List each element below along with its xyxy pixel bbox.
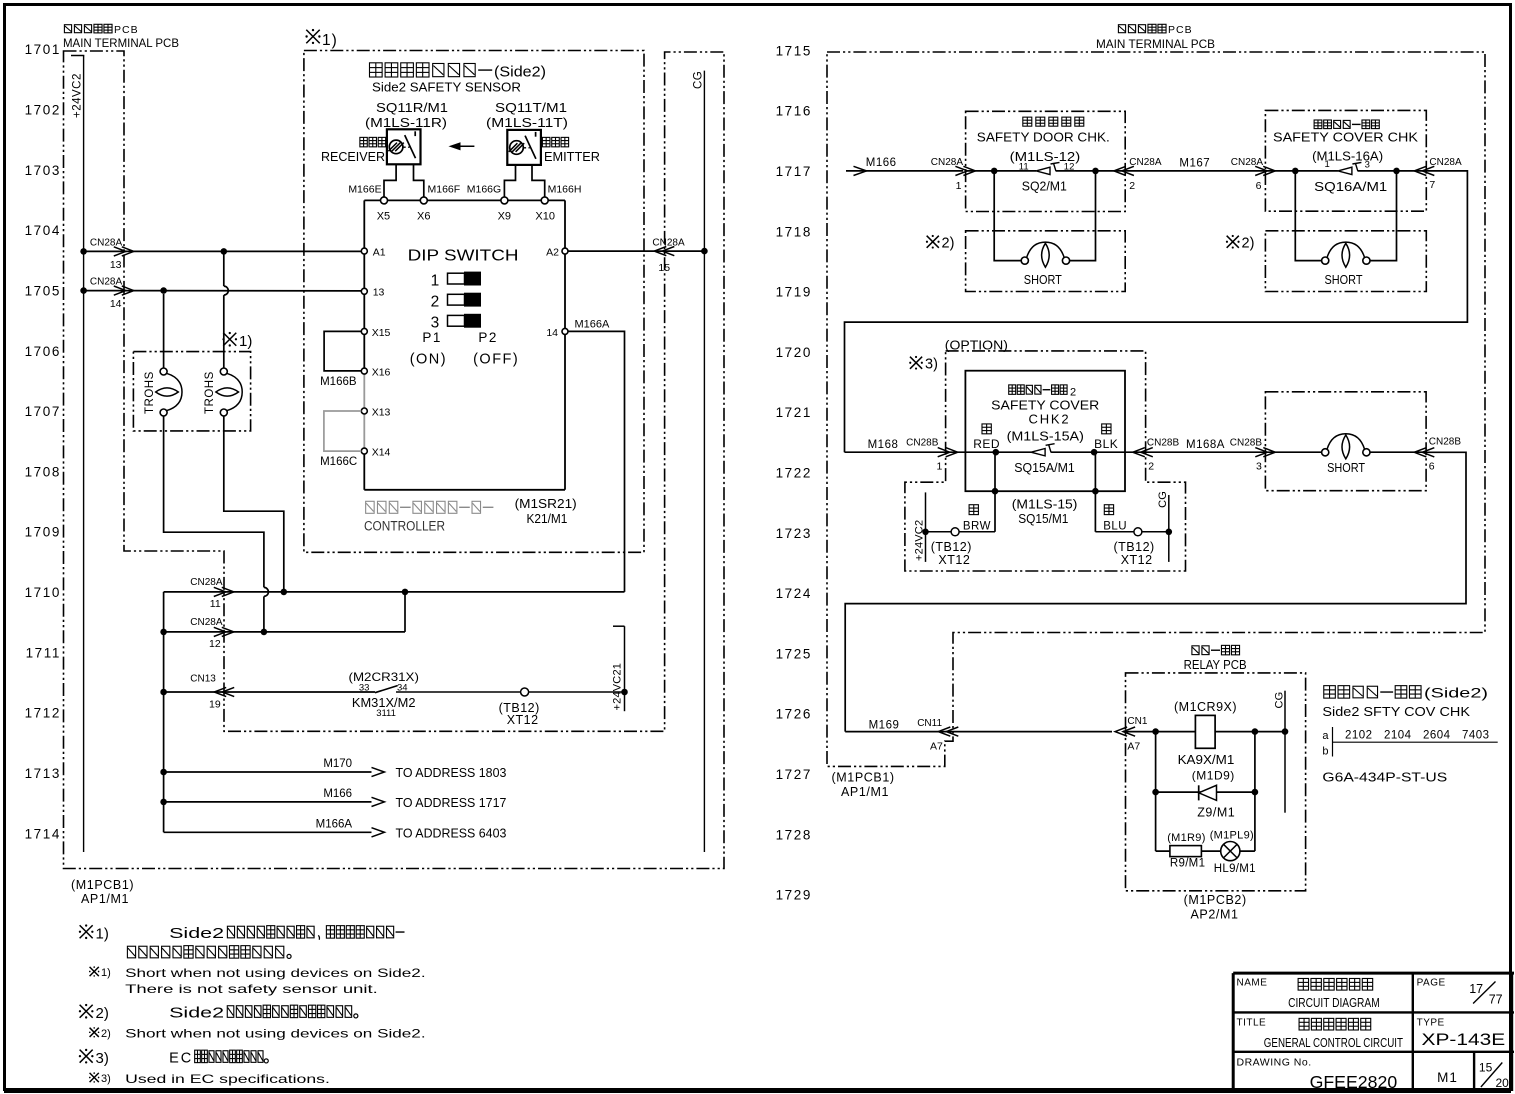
svg-text:3111: 3111 <box>376 708 396 719</box>
svg-text:PAGE: PAGE <box>1417 977 1446 988</box>
svg-text:TO ADDRESS 6403: TO ADDRESS 6403 <box>396 827 507 841</box>
svg-text:Side2: Side2 <box>169 926 224 942</box>
svg-text:Short when not using devices o: Short when not using devices on Side2. <box>125 966 426 980</box>
svg-text:2): 2) <box>96 1005 109 1022</box>
svg-text:TYPE: TYPE <box>1417 1017 1445 1028</box>
svg-text:M166C: M166C <box>320 456 357 468</box>
svg-text:(M1LS-11R): (M1LS-11R) <box>365 116 447 130</box>
svg-text:NAME: NAME <box>1237 977 1268 988</box>
svg-text:1701: 1701 <box>25 42 61 57</box>
svg-text:3): 3) <box>96 1050 109 1067</box>
svg-text:CN28B: CN28B <box>1429 437 1462 448</box>
svg-text:A2: A2 <box>546 247 559 259</box>
svg-text:1715: 1715 <box>776 43 812 58</box>
svg-text:XP-143E: XP-143E <box>1422 1030 1506 1049</box>
svg-text:BLU: BLU <box>1103 520 1127 532</box>
svg-text:1: 1 <box>431 272 440 289</box>
svg-text:(M1PCB2): (M1PCB2) <box>1184 893 1247 907</box>
svg-text:SQ11R/M1: SQ11R/M1 <box>376 101 448 115</box>
svg-text:M166E: M166E <box>348 184 381 196</box>
svg-text:GENERAL CONTROL CIRCUIT: GENERAL CONTROL CIRCUIT <box>1264 1036 1403 1050</box>
svg-text:12: 12 <box>209 638 221 650</box>
svg-text:CN28A: CN28A <box>1231 157 1264 168</box>
svg-text:7: 7 <box>1429 179 1435 191</box>
svg-text:1722: 1722 <box>776 466 812 481</box>
svg-text:MAIN TERMINAL PCB: MAIN TERMINAL PCB <box>63 38 179 50</box>
svg-text:CN28B: CN28B <box>1230 437 1263 448</box>
svg-text:M166A: M166A <box>575 318 611 330</box>
svg-text:SHORT: SHORT <box>1327 460 1365 475</box>
svg-text:A7: A7 <box>930 741 943 753</box>
svg-text:1704: 1704 <box>25 223 61 238</box>
svg-text:(TB12): (TB12) <box>931 540 972 554</box>
svg-text:DRAWING No.: DRAWING No. <box>1237 1056 1312 1068</box>
svg-text:M168A: M168A <box>1186 439 1225 451</box>
svg-text:P1: P1 <box>422 330 442 345</box>
svg-text:(M1R9): (M1R9) <box>1167 832 1205 844</box>
svg-text:M166B: M166B <box>320 376 357 388</box>
svg-text:15: 15 <box>1479 1061 1493 1075</box>
svg-text:7403: 7403 <box>1462 730 1490 742</box>
svg-text:CG: CG <box>693 71 705 89</box>
svg-text:BRW: BRW <box>963 520 991 532</box>
svg-text:34: 34 <box>397 683 408 694</box>
svg-text:There is not safety sensor uni: There is not safety sensor unit. <box>125 982 378 996</box>
svg-text:2: 2 <box>431 293 440 310</box>
svg-text:AP1/M1: AP1/M1 <box>81 892 129 906</box>
svg-text:(M1PCB1): (M1PCB1) <box>832 771 895 785</box>
svg-text:CIRCUIT DIAGRAM: CIRCUIT DIAGRAM <box>1288 996 1380 1010</box>
svg-text:CN13: CN13 <box>190 674 216 685</box>
svg-text:13: 13 <box>373 287 385 299</box>
svg-text:Z9/M1: Z9/M1 <box>1197 806 1235 820</box>
svg-text:XT12: XT12 <box>938 553 970 567</box>
svg-text:X13: X13 <box>372 406 391 418</box>
svg-text:K21/M1: K21/M1 <box>527 512 568 526</box>
svg-text:20: 20 <box>1496 1076 1510 1090</box>
svg-text:A7: A7 <box>1127 741 1140 753</box>
svg-text:X16: X16 <box>372 367 391 379</box>
svg-text:CONTROLLER: CONTROLLER <box>364 519 445 534</box>
svg-text:CN28A: CN28A <box>1129 157 1162 168</box>
svg-text:(Side2): (Side2) <box>1424 686 1488 701</box>
svg-text:KA9X/M1: KA9X/M1 <box>1178 752 1235 767</box>
svg-text:M167: M167 <box>1179 158 1210 170</box>
svg-text:(OPTION): (OPTION) <box>945 339 1008 353</box>
svg-text:M166: M166 <box>866 157 897 169</box>
svg-text:3: 3 <box>1365 160 1370 171</box>
svg-text:14: 14 <box>546 327 558 339</box>
svg-text:(M1LS-16A): (M1LS-16A) <box>1312 149 1383 163</box>
svg-text:M166H: M166H <box>548 184 582 196</box>
svg-text:M169: M169 <box>869 719 900 731</box>
svg-text:HL9/M1: HL9/M1 <box>1214 863 1256 875</box>
svg-text:2): 2) <box>942 236 955 252</box>
svg-text:(M1LS-11T): (M1LS-11T) <box>486 116 568 130</box>
svg-text:1713: 1713 <box>25 766 61 781</box>
svg-text:CN28A: CN28A <box>190 617 223 628</box>
svg-text:2604: 2604 <box>1423 730 1451 742</box>
svg-text:(M1PL9): (M1PL9) <box>1210 829 1254 841</box>
svg-text:33: 33 <box>359 683 370 694</box>
svg-text:CN28A: CN28A <box>1429 157 1462 168</box>
svg-text:1): 1) <box>239 333 252 350</box>
svg-text:1705: 1705 <box>25 283 61 298</box>
svg-text:P2: P2 <box>478 330 498 345</box>
svg-text:AP1/M1: AP1/M1 <box>841 785 889 799</box>
svg-text:EMITTER: EMITTER <box>544 149 600 164</box>
svg-text:+24VC2: +24VC2 <box>72 73 84 118</box>
svg-text:(M1LS-15): (M1LS-15) <box>1012 498 1078 512</box>
svg-text:M170: M170 <box>323 758 352 770</box>
svg-text:DIP SWITCH: DIP SWITCH <box>408 247 519 264</box>
svg-text:CN11: CN11 <box>917 718 942 729</box>
svg-text:19: 19 <box>209 699 221 711</box>
svg-text:2: 2 <box>1148 461 1154 473</box>
svg-text:RED: RED <box>973 437 1000 451</box>
svg-text:3: 3 <box>1256 461 1262 473</box>
svg-text:77: 77 <box>1489 993 1503 1007</box>
svg-text:PCB: PCB <box>114 24 139 36</box>
svg-text:1723: 1723 <box>776 526 812 541</box>
svg-text:CN28B: CN28B <box>1147 437 1180 448</box>
svg-text:2104: 2104 <box>1384 730 1412 742</box>
svg-text:1724: 1724 <box>776 586 812 601</box>
svg-text:M168: M168 <box>868 439 899 451</box>
svg-text:Used in EC specifications.: Used in EC specifications. <box>125 1072 330 1086</box>
svg-text:(M1PCB1): (M1PCB1) <box>71 878 134 892</box>
svg-text:(M1CR9X): (M1CR9X) <box>1174 700 1237 714</box>
svg-text:CN28A: CN28A <box>190 577 223 588</box>
svg-text:CN28A: CN28A <box>652 237 685 248</box>
svg-text:X14: X14 <box>372 447 391 459</box>
svg-text:(TB12): (TB12) <box>1114 540 1155 554</box>
svg-text:SHORT: SHORT <box>1325 272 1363 287</box>
svg-text:SQ16A/M1: SQ16A/M1 <box>1314 180 1387 194</box>
svg-text:1: 1 <box>936 461 942 473</box>
svg-text:1714: 1714 <box>25 826 61 841</box>
svg-text:CG: CG <box>1157 491 1169 508</box>
svg-text:+24VC2: +24VC2 <box>914 520 926 561</box>
svg-text:(ON): (ON) <box>410 352 447 368</box>
svg-text:A1: A1 <box>373 247 386 259</box>
svg-text:1702: 1702 <box>25 102 61 117</box>
svg-text:11: 11 <box>1019 162 1029 173</box>
svg-text:M166F: M166F <box>428 184 461 196</box>
svg-text:1706: 1706 <box>25 344 61 359</box>
svg-text:b: b <box>1322 746 1328 758</box>
svg-text:Side2 SFTY COV CHK: Side2 SFTY COV CHK <box>1322 705 1470 719</box>
svg-text:1: 1 <box>956 180 962 192</box>
svg-text:RECEIVER: RECEIVER <box>321 149 385 164</box>
svg-text:M166: M166 <box>323 788 352 800</box>
svg-text:1): 1) <box>322 32 338 49</box>
svg-text:1725: 1725 <box>776 646 812 661</box>
svg-text:X9: X9 <box>498 210 511 222</box>
svg-text:SQ15/M1: SQ15/M1 <box>1018 512 1068 526</box>
svg-text:Side2: Side2 <box>169 1006 224 1022</box>
svg-text:1720: 1720 <box>776 345 812 360</box>
svg-text:1726: 1726 <box>776 707 812 722</box>
svg-text:X6: X6 <box>417 210 430 222</box>
svg-text:2): 2) <box>101 1028 111 1040</box>
svg-text:17: 17 <box>1469 982 1483 996</box>
svg-text:Side2 SAFETY SENSOR: Side2 SAFETY SENSOR <box>372 80 521 95</box>
svg-text:TROHS: TROHS <box>144 371 156 414</box>
svg-text:CN28B: CN28B <box>906 437 939 448</box>
svg-text:1709: 1709 <box>25 525 61 540</box>
svg-text:X10: X10 <box>535 210 555 222</box>
svg-text:R9/M1: R9/M1 <box>1170 858 1205 870</box>
svg-text:13: 13 <box>110 259 122 271</box>
svg-text:2): 2) <box>1242 236 1255 252</box>
svg-text:SQ2/M1: SQ2/M1 <box>1022 180 1067 194</box>
svg-text:1): 1) <box>96 926 109 943</box>
svg-text:TITLE: TITLE <box>1237 1017 1267 1028</box>
svg-text:(M1D9): (M1D9) <box>1192 769 1235 783</box>
svg-text:1716: 1716 <box>776 104 812 119</box>
svg-text:1711: 1711 <box>26 645 61 660</box>
svg-text:SQ15A/M1: SQ15A/M1 <box>1014 461 1075 475</box>
svg-text:PCB: PCB <box>1168 24 1193 36</box>
svg-text:XT12: XT12 <box>507 713 539 727</box>
svg-text:SAFETY COVER: SAFETY COVER <box>991 397 1099 412</box>
svg-text:SAFETY DOOR CHK.: SAFETY DOOR CHK. <box>977 131 1110 145</box>
svg-text:(OFF): (OFF) <box>473 352 519 368</box>
svg-text:BLK: BLK <box>1094 437 1118 451</box>
svg-text:14: 14 <box>110 298 122 310</box>
svg-text:1707: 1707 <box>25 404 61 419</box>
svg-text:TO ADDRESS 1717: TO ADDRESS 1717 <box>396 796 507 810</box>
svg-text:RELAY PCB: RELAY PCB <box>1184 658 1247 672</box>
svg-text:6: 6 <box>1429 461 1435 473</box>
svg-text:2: 2 <box>1129 180 1135 192</box>
svg-text:SHORT: SHORT <box>1024 272 1062 287</box>
svg-text:1): 1) <box>101 967 111 979</box>
svg-text:SAFETY COVER CHK: SAFETY COVER CHK <box>1273 131 1419 145</box>
svg-text:CN1: CN1 <box>1127 716 1147 727</box>
svg-text:M1: M1 <box>1437 1070 1458 1085</box>
svg-text:CHK2: CHK2 <box>1029 412 1071 427</box>
svg-text:CN28A: CN28A <box>931 157 964 168</box>
svg-text:6: 6 <box>1256 180 1262 192</box>
svg-text:1708: 1708 <box>25 464 61 479</box>
svg-text:G6A-434P-ST-US: G6A-434P-ST-US <box>1322 771 1447 785</box>
svg-text:1: 1 <box>1325 159 1330 170</box>
svg-text:1710: 1710 <box>25 585 61 600</box>
svg-text:11: 11 <box>210 598 221 610</box>
svg-text:XT12: XT12 <box>1121 553 1153 567</box>
svg-text:1719: 1719 <box>776 285 812 300</box>
svg-text:Short when not using devices o: Short when not using devices on Side2. <box>125 1027 426 1041</box>
svg-text:1718: 1718 <box>776 224 812 239</box>
svg-text:CG: CG <box>1273 692 1285 709</box>
svg-text:(M1SR21): (M1SR21) <box>515 497 577 511</box>
svg-text:X5: X5 <box>377 210 390 222</box>
svg-text:1712: 1712 <box>25 706 61 721</box>
svg-text:TO ADDRESS 1803: TO ADDRESS 1803 <box>396 766 507 780</box>
svg-text:SQ11T/M1: SQ11T/M1 <box>495 101 567 115</box>
svg-text:3): 3) <box>101 1073 111 1085</box>
svg-text:1721: 1721 <box>776 405 812 420</box>
svg-text:EC: EC <box>169 1051 193 1067</box>
svg-text:1717: 1717 <box>776 164 812 179</box>
svg-text:TROHS: TROHS <box>204 371 216 414</box>
svg-text:CN28A: CN28A <box>90 237 123 248</box>
svg-text:AP2/M1: AP2/M1 <box>1191 908 1239 922</box>
svg-text:1729: 1729 <box>776 888 812 903</box>
svg-text:X15: X15 <box>372 327 391 339</box>
svg-text:1727: 1727 <box>776 767 812 782</box>
svg-text:15: 15 <box>658 262 670 274</box>
svg-text:+24VC21: +24VC21 <box>612 663 624 711</box>
svg-text:1728: 1728 <box>776 827 812 842</box>
svg-text:MAIN TERMINAL PCB: MAIN TERMINAL PCB <box>1096 39 1215 51</box>
svg-text:(M1LS-15A): (M1LS-15A) <box>1007 429 1084 443</box>
svg-text:3): 3) <box>925 357 938 373</box>
svg-text:2102: 2102 <box>1345 730 1373 742</box>
svg-text:M166G: M166G <box>467 184 501 196</box>
svg-text:a: a <box>1322 730 1329 742</box>
svg-text:CN28A: CN28A <box>90 277 123 288</box>
svg-text:(Side2): (Side2) <box>494 65 546 81</box>
svg-text:M166A: M166A <box>316 818 353 830</box>
svg-text:1703: 1703 <box>25 163 61 178</box>
